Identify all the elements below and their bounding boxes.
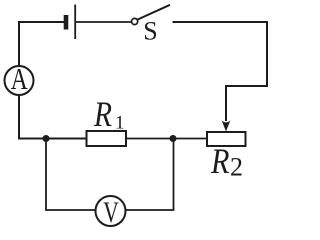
wire: voltmeter branch, left side down [46, 139, 96, 211]
voltmeter letter V [103, 196, 119, 229]
ammeter letter A [11, 61, 28, 96]
wire: switch to top-right corner, down and over to rheostat wiper [173, 22, 268, 121]
voltmeter V: circle [96, 196, 126, 226]
svg-text:V: V [103, 196, 119, 228]
switch S: open blade [137, 5, 170, 20]
label R2 [210, 141, 243, 182]
node: right junction dot [170, 135, 177, 142]
wire: voltmeter branch, right side up to junction [126, 139, 174, 211]
svg-text:R: R [210, 141, 229, 181]
wire: R1 to right junction [126, 138, 174, 140]
node: left junction dot [43, 135, 50, 142]
svg-text:2: 2 [230, 153, 243, 182]
wire: R2 to right junction [172, 138, 207, 140]
switch S: pivot circle [132, 18, 138, 24]
label R1 [93, 94, 124, 134]
ammeter A: circle [5, 66, 34, 95]
resistor R1: body rectangle [87, 131, 127, 146]
switch label S [143, 17, 157, 46]
wire: battery to switch [76, 21, 131, 23]
battery B (cell): thin long positive plate [74, 5, 76, 40]
wire: ammeter down to main rail and along to R1 [19, 95, 87, 139]
svg-text:R: R [93, 94, 112, 134]
svg-text:1: 1 [115, 113, 125, 134]
svg-text:S: S [143, 17, 157, 46]
battery B (cell): thick short negative plate [64, 15, 69, 30]
svg-text:A: A [11, 61, 28, 96]
wiper arrowhead onto R2 [222, 120, 231, 131]
rheostat R2: body rectangle [207, 132, 246, 146]
wire: top-left from battery to left rail corner [19, 22, 64, 66]
